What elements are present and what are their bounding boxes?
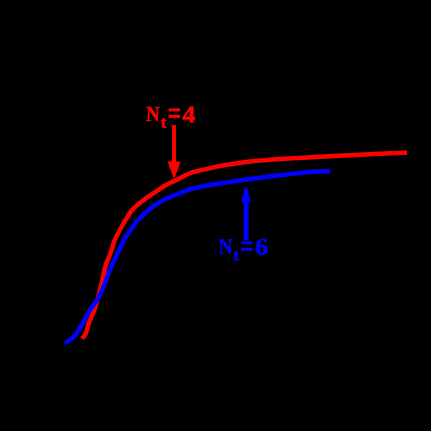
svg-text:N: N <box>146 103 160 126</box>
svg-text:6: 6 <box>255 235 268 261</box>
svg-text:t: t <box>161 113 167 132</box>
svg-text:N: N <box>219 235 233 258</box>
svg-text:t: t <box>233 246 239 265</box>
svg-text:4: 4 <box>182 102 196 128</box>
